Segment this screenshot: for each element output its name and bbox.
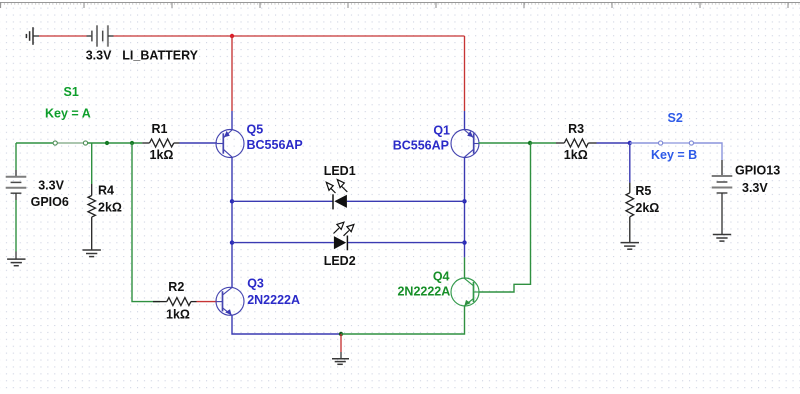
wire green GPIO6 to S1 [16, 142, 53, 144]
battery GPIO6 [6, 143, 27, 200]
transistor Q5 BC556AP (PNP) [216, 130, 244, 158]
wire blue R1 to Q5 base [180, 142, 218, 144]
resistor R3 [556, 139, 597, 147]
wire blue LED2 right [347, 242, 464, 244]
battery GPIO13 [712, 160, 733, 235]
svg-text:3.3V: 3.3V [742, 181, 768, 195]
ground top-left [26, 27, 39, 45]
svg-text:Key = B: Key = B [651, 148, 697, 162]
wire blue LED1 left [232, 200, 333, 202]
svg-text:1kΩ: 1kΩ [150, 148, 174, 162]
junction LED1 right [462, 199, 466, 203]
resistor R1 [142, 139, 179, 147]
svg-text:2kΩ: 2kΩ [635, 201, 659, 215]
wire blue R3 to junction [597, 142, 630, 144]
wire red R2 to Q3 base [197, 301, 218, 303]
svg-text:3.3V: 3.3V [86, 49, 112, 63]
svg-text:Q3: Q3 [247, 277, 264, 291]
junction top red [230, 34, 234, 38]
wire lightblue S2 to GPIO13 [694, 143, 722, 160]
junction green b [130, 141, 134, 145]
svg-text:R5: R5 [635, 184, 651, 198]
svg-text:R3: R3 [568, 122, 584, 136]
arrow Q4 emitter [464, 300, 470, 306]
wire green battery to ground [15, 200, 17, 252]
wire blue Q1 collector rail [464, 157, 466, 257]
svg-text:Q5: Q5 [247, 122, 264, 136]
arrow Q5 emitter [224, 131, 230, 137]
wire blue junction down to R5 [629, 143, 631, 183]
resistor R5 [626, 183, 634, 243]
wire blue LED2 left [232, 242, 334, 244]
svg-text:Key = A: Key = A [45, 107, 91, 121]
svg-text:3.3V: 3.3V [38, 179, 64, 193]
sheet border ruler [0, 3, 800, 9]
wire red down to Q5 [231, 36, 233, 111]
svg-text:R2: R2 [168, 280, 184, 294]
resistor R2 [153, 298, 197, 306]
svg-text:1kΩ: 1kΩ [564, 148, 588, 162]
arrow Q3 emitter [225, 309, 231, 315]
wire red down to Q1 [464, 36, 466, 111]
svg-text:1kΩ: 1kΩ [166, 307, 190, 321]
svg-text:GPIO6: GPIO6 [31, 195, 69, 209]
wire green down to R4 [91, 143, 93, 184]
transistor Q3 2N2222A (NPN) [216, 287, 244, 315]
transistor Q1 BC556AP (PNP mirrored) [451, 130, 479, 158]
junction LED2 right [462, 240, 466, 244]
svg-text:S2: S2 [668, 111, 683, 125]
wire blue Q3 emitter down [232, 316, 341, 335]
svg-text:BC556AP: BC556AP [247, 138, 303, 152]
wire blue stub to Q1 emitter [464, 111, 466, 130]
wire green down to R2 [132, 143, 160, 302]
switch S1 [53, 141, 87, 145]
switch S2 [659, 141, 694, 145]
ground bottom [332, 352, 349, 364]
junction LED1 left [230, 199, 234, 203]
wire lightblue junction to S2 [630, 142, 658, 144]
wire green junction down to Q4 base [479, 143, 531, 292]
wire red ground to battery V1 [39, 35, 87, 37]
wire green junction to R3 [530, 142, 556, 144]
junction LED2 left [230, 240, 234, 244]
wire red battery to top-right corner [114, 35, 465, 37]
junction green R3 [528, 141, 532, 145]
svg-text:BC556AP: BC556AP [393, 139, 449, 153]
arrow Q1 emitter [467, 131, 473, 137]
ground under GPIO13 [713, 235, 731, 242]
svg-text:R4: R4 [98, 183, 114, 197]
wire green Q1 base to junction [479, 142, 531, 144]
svg-text:R1: R1 [152, 122, 168, 136]
junction blue R5 [628, 141, 632, 145]
svg-text:LED1: LED1 [324, 164, 356, 178]
svg-text:S1: S1 [64, 85, 79, 99]
ground under R5 [621, 243, 639, 250]
wire blue Q5 collector rail [231, 157, 233, 287]
ground under GPIO6 [7, 252, 25, 266]
wire green bottom to Q4 emitter [341, 306, 465, 334]
ground under R4 [83, 250, 101, 257]
battery V1 LI_BATTERY [87, 25, 114, 46]
wire blue stub to Q5 emitter [231, 111, 233, 130]
LED2 [334, 222, 354, 250]
transistor Q4 2N2222A (NPN mirrored) [451, 278, 479, 306]
svg-text:Q1: Q1 [433, 123, 450, 137]
wire blue LED1 right [347, 200, 465, 202]
resistor R4 [88, 184, 95, 250]
wire red junction to ground [340, 334, 342, 352]
svg-text:LI_BATTERY: LI_BATTERY [122, 49, 198, 63]
svg-text:2kΩ: 2kΩ [98, 201, 122, 215]
svg-text:LED2: LED2 [324, 254, 356, 268]
svg-text:2N2222A: 2N2222A [247, 293, 300, 307]
junction bottom [339, 332, 343, 336]
junction green a [105, 141, 109, 145]
wire green rail to Q4 [464, 257, 466, 278]
svg-text:GPIO13: GPIO13 [735, 164, 780, 178]
LED1 [326, 180, 347, 210]
svg-text:2N2222A: 2N2222A [397, 285, 450, 299]
wire green S1 to R1 [88, 142, 142, 144]
svg-text:Q4: Q4 [433, 270, 450, 284]
